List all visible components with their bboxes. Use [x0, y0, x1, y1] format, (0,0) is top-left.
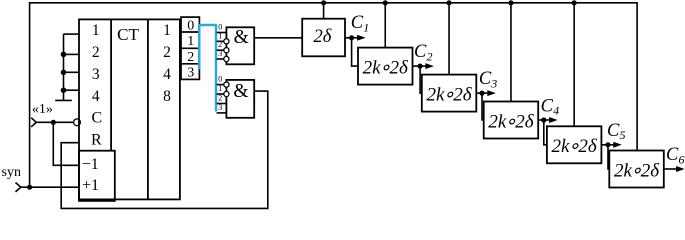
- wire gate D1 output to U2 input: [254, 37, 302, 39]
- svg-text:2δ: 2δ: [313, 27, 331, 47]
- inverter bubble on C input: [74, 119, 81, 126]
- svg-text:1: 1: [187, 34, 194, 49]
- inverter bubble gate D1 pin 2: [224, 48, 229, 53]
- node C5 junction: [605, 142, 610, 147]
- svg-text:C: C: [414, 42, 427, 62]
- wire C5 junction to U7 input: [608, 145, 609, 169]
- svg-text:1: 1: [92, 22, 100, 39]
- svg-text:2k∘2δ: 2k∘2δ: [488, 111, 534, 132]
- svg-text:0: 0: [218, 23, 222, 32]
- node C1 junction: [349, 35, 354, 40]
- node syn junction to top bus: [27, 185, 32, 190]
- block U3 box: [358, 48, 413, 85]
- wire constant 1 to -1 input: [53, 122, 79, 165]
- wire C5 arrow: [608, 144, 616, 146]
- svg-text:2k∘2δ: 2k∘2δ: [363, 57, 409, 78]
- wire gate D1 input pin 0: [217, 32, 227, 34]
- wire C2 junction to U4 input: [420, 66, 422, 93]
- wire top bus drop to 2delta top: [323, 3, 325, 19]
- svg-text:&: &: [234, 27, 249, 48]
- svg-text:2k∘2δ: 2k∘2δ: [426, 84, 472, 105]
- svg-text:2: 2: [218, 40, 222, 49]
- wire U3 output to C2 junction: [413, 65, 421, 67]
- inverter bubble gate D1 pin 3: [224, 56, 229, 61]
- node top bus junction to U4: [446, 0, 451, 5]
- svg-text:C: C: [541, 96, 554, 116]
- logic gate D1 AND box: [226, 27, 254, 64]
- wire gate D1 input pin 1: [217, 40, 224, 42]
- svg-text:1: 1: [218, 84, 222, 93]
- wire U5 output to C4 junction: [538, 119, 544, 121]
- svg-text:C: C: [666, 145, 679, 165]
- inverter bubble gate D1 pin 1: [224, 39, 229, 44]
- wire gate D2 input pin 0: [217, 84, 224, 86]
- svg-text:2: 2: [163, 44, 171, 61]
- svg-text:4: 4: [553, 104, 559, 118]
- node C4 junction: [541, 117, 546, 122]
- svg-text:C: C: [479, 69, 492, 89]
- svg-text:2k∘2δ: 2k∘2δ: [614, 160, 660, 181]
- block U7 box: [609, 151, 664, 188]
- wire top bus drop to U6 top: [573, 3, 575, 127]
- node top bus junction to U5: [508, 0, 513, 5]
- wire gate D2 output to R input via bottom bus: [61, 91, 268, 208]
- svg-text:+1: +1: [82, 177, 99, 194]
- svg-text:syn: syn: [2, 165, 21, 180]
- svg-text:C: C: [91, 110, 102, 127]
- svg-text:4: 4: [163, 66, 171, 83]
- wire C3 junction to U5 input: [482, 93, 484, 120]
- svg-text:2: 2: [92, 44, 100, 61]
- counter output cells box: [181, 17, 199, 79]
- svg-text:6: 6: [679, 153, 685, 167]
- wire gate D2 input pin 2: [217, 103, 227, 105]
- wire gate D1 input pin 2: [217, 49, 224, 51]
- wire C1 junction to U3 input: [352, 38, 358, 66]
- inverter bubble gate D2 pin 0: [224, 82, 229, 87]
- wire C2 arrow: [420, 65, 428, 67]
- svg-text:1: 1: [163, 22, 171, 39]
- svg-text:C: C: [351, 13, 364, 33]
- svg-text:3: 3: [92, 66, 100, 83]
- wire common line for data inputs 1-4: [63, 34, 65, 100]
- svg-text:2k∘2δ: 2k∘2δ: [552, 136, 598, 157]
- node top bus junction to U6: [572, 0, 577, 5]
- node C2 junction: [418, 64, 423, 69]
- delay block U2 box: [302, 19, 345, 57]
- wire U4 output to C3 junction: [476, 92, 482, 94]
- svg-text:5: 5: [620, 128, 626, 142]
- svg-text:3: 3: [187, 65, 194, 80]
- node data input junction: [61, 70, 67, 76]
- svg-text:0: 0: [218, 75, 222, 84]
- wire gate D2 input pin 1: [217, 93, 224, 95]
- svg-text:8: 8: [163, 88, 171, 105]
- block U4 box: [422, 75, 477, 112]
- svg-text:&: &: [233, 81, 248, 102]
- svg-text:4: 4: [92, 88, 100, 105]
- node top bus junction to U3: [383, 0, 388, 5]
- svg-text:1: 1: [363, 20, 369, 34]
- svg-text:C: C: [607, 121, 620, 141]
- node C3 junction: [479, 91, 484, 96]
- node constant 1 junction: [51, 120, 56, 125]
- wire top bus from syn junction to last block top input: [30, 3, 638, 187]
- wire gate D2 input pin 3: [217, 112, 227, 114]
- wire C4 arrow: [544, 119, 552, 121]
- svg-text:3: 3: [218, 103, 222, 112]
- wire C3 arrow: [482, 92, 490, 94]
- wire top bus drop to U5 top: [510, 3, 512, 102]
- block U6 box: [547, 126, 602, 163]
- svg-text:CT: CT: [117, 25, 139, 44]
- svg-text:2: 2: [218, 94, 222, 103]
- wire top bus drop to U3 top: [384, 3, 386, 48]
- wire U6 output to C5 junction: [601, 144, 608, 146]
- svg-text:2: 2: [427, 50, 433, 64]
- wire C1 arrow: [352, 37, 360, 39]
- wire U2 output to C1 junction: [345, 37, 352, 39]
- svg-text:3: 3: [490, 77, 497, 91]
- svg-text:2: 2: [187, 50, 194, 65]
- wire top bus drop to U4 top: [448, 3, 450, 75]
- wire C4 junction to U6 input: [544, 120, 547, 145]
- node top bus junction to 2delta: [321, 0, 326, 5]
- wire gate D1 input pin 3: [217, 58, 224, 60]
- wire C6 output arrow: [664, 168, 679, 170]
- svg-text:3: 3: [218, 49, 222, 58]
- svg-text:«1»: «1»: [32, 102, 53, 117]
- wire syn input with source ticks: [16, 183, 21, 188]
- counter U1 left column divider: [110, 19, 112, 150]
- svg-text:0: 0: [187, 18, 194, 33]
- node data input junction: [61, 52, 67, 58]
- svg-text:1: 1: [218, 31, 222, 40]
- svg-text:−1: −1: [82, 156, 99, 173]
- node data input junction: [61, 87, 67, 93]
- logic gate D2 AND box: [226, 80, 254, 118]
- counter U1 -1/+1 sub-block: [79, 151, 115, 201]
- bus highlight (cyan): [199, 25, 216, 112]
- counter U1 box: [79, 19, 180, 199]
- counter U1 right column divider: [147, 19, 149, 199]
- svg-text:R: R: [91, 132, 102, 149]
- wire constant 1 input with source ticks: [31, 118, 36, 123]
- inverter bubble gate D2 pin 1: [224, 91, 229, 96]
- block U5 box: [484, 102, 539, 139]
